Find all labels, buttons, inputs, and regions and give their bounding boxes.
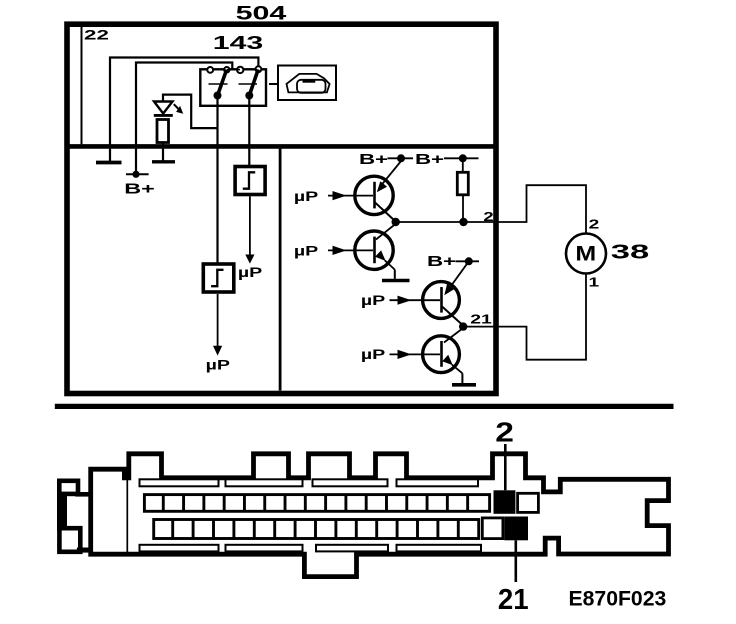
connector bracket ledge bottom — [77, 548, 92, 553]
svg-text:38: 38 — [611, 240, 649, 263]
wire: ground feed to switch S2 — [110, 58, 258, 162]
pulse box U2 — [203, 264, 234, 292]
svg-text:B+: B+ — [124, 181, 155, 197]
wire node to motor pin 2 — [396, 185, 586, 234]
svg-text:E870F023: E870F023 — [569, 587, 667, 610]
svg-text:21: 21 — [470, 311, 492, 326]
switch S2 blade — [249, 69, 258, 95]
pin 2 highlighted — [494, 490, 516, 514]
node dot R2 junction — [459, 218, 467, 226]
wire B+ rail 3 — [456, 260, 480, 262]
leader line pin 21 — [514, 540, 517, 582]
svg-text:B+: B+ — [415, 151, 444, 167]
wire B+ rail segment 1 — [388, 157, 414, 159]
svg-text:µP: µP — [294, 243, 318, 259]
motor M 38 — [566, 234, 606, 274]
switch S2 stub to box edge — [261, 69, 266, 71]
svg-text:2: 2 — [495, 416, 514, 448]
wire node to motor pin 1 — [463, 273, 586, 359]
switch S1 blade — [218, 70, 227, 96]
svg-text:21: 21 — [498, 584, 529, 615]
transistor Q2 — [355, 225, 395, 270]
connector bracket ledge top — [75, 492, 92, 497]
pulse symbol U1 — [243, 172, 255, 188]
wire: S1 output down to pulse box U2 — [216, 96, 218, 263]
svg-text:2: 2 — [589, 217, 600, 231]
svg-text:µP: µP — [238, 265, 262, 281]
switch box 143 — [200, 69, 266, 106]
svg-text:143: 143 — [213, 33, 264, 54]
wire: U2 to uP arrow — [217, 294, 219, 346]
arrowhead U1 output — [245, 255, 254, 264]
resistor R2 — [457, 172, 468, 195]
uP input line Q2 — [328, 249, 373, 251]
pin left of pin 21 — [482, 518, 503, 539]
node dot B+ R2 — [459, 154, 467, 162]
wire: S2 output down to pulse box U1 — [248, 96, 250, 166]
leader line pin 2 — [504, 444, 507, 490]
pin 21 highlighted — [504, 517, 528, 541]
pulse symbol U2 — [211, 270, 223, 286]
svg-text:µP: µP — [361, 293, 385, 309]
wire: LED anode to switch S1 output — [163, 95, 218, 129]
bottom shelf strip 2 — [226, 545, 303, 552]
wire R2 to node 2 — [462, 195, 464, 222]
switch S1 moving dot — [214, 92, 222, 100]
connector left bracket bottom arm — [59, 528, 80, 552]
arrowhead uP Q4 — [398, 350, 412, 359]
bottom shelf strip 4 — [397, 545, 482, 552]
internal divider horizontal — [67, 144, 496, 149]
switch S1 pivot circle — [224, 67, 229, 72]
svg-text:M: M — [575, 241, 596, 265]
transistor Q3 — [423, 261, 469, 324]
transistor Q1 — [355, 161, 402, 221]
pin right of pin 2 — [518, 493, 539, 512]
wire Q2 emitter to ground — [394, 270, 396, 279]
top shelf strip 3 — [313, 479, 388, 486]
switch S2 pivot circle — [256, 66, 262, 72]
wire B+ rail segment 2 — [444, 157, 479, 159]
switch S1 contact a — [207, 67, 213, 73]
svg-text:µP: µP — [294, 188, 318, 204]
pin row 1 — [144, 495, 489, 512]
bottom shelf strip 3 — [316, 545, 388, 552]
connector housing outline — [91, 454, 669, 577]
svg-text:µP: µP — [361, 347, 385, 363]
ground G3 — [382, 279, 410, 283]
separator line — [55, 404, 674, 409]
switch S1 tick — [209, 83, 228, 85]
node dot B+ Q3 — [465, 257, 473, 265]
svg-text:2: 2 — [483, 209, 493, 224]
wire: U1 to uP arrow — [249, 196, 251, 255]
node B+ supply dot — [132, 171, 139, 178]
uP input line Q3 — [390, 299, 441, 301]
arrowhead uP Q2 — [333, 246, 347, 255]
wire B+ to R2 — [462, 158, 464, 172]
arrowhead U2 output — [213, 346, 222, 356]
wire: switch box to car icon — [269, 83, 278, 85]
node B+ cross line — [126, 173, 149, 175]
wire: B+ feed to switch S1 — [136, 63, 232, 175]
transistor Q4 — [423, 329, 463, 374]
svg-text:22: 22 — [84, 27, 109, 43]
bottom shelf strip 1 — [140, 545, 219, 552]
svg-text:B+: B+ — [427, 253, 456, 269]
node dot B+ Q1 — [397, 154, 405, 162]
svg-text:504: 504 — [236, 3, 288, 24]
uP input line Q4 — [390, 353, 441, 355]
svg-text:B+: B+ — [359, 151, 388, 167]
pulse box U1 — [235, 167, 265, 195]
node dot 2 junction — [392, 218, 400, 226]
arrowhead uP Q3 — [398, 296, 412, 305]
svg-text:µP: µP — [206, 357, 230, 373]
uP input line Q1 — [328, 195, 373, 197]
svg-text:1: 1 — [588, 275, 599, 289]
ground G2 — [152, 160, 175, 163]
internal divider vertical — [279, 146, 282, 390]
car icon box — [278, 66, 336, 101]
wire: R1 to ground — [162, 143, 164, 161]
switch S2 tick — [239, 83, 258, 85]
control unit box 504 — [67, 24, 496, 393]
pin row 2 — [154, 520, 479, 539]
car icon — [287, 74, 330, 93]
switch S2 moving dot — [245, 92, 253, 100]
node dot 21 junction — [459, 322, 467, 330]
switch S1 contact b — [237, 67, 243, 73]
wire Q4 emitter to ground — [461, 373, 463, 383]
top shelf strip 2 — [226, 479, 303, 486]
ground G4 — [452, 383, 476, 387]
pin 22 cell line — [81, 27, 83, 144]
switch S1 pivot link — [227, 69, 240, 71]
connector block separator line — [126, 477, 128, 552]
arrowhead uP Q1 — [333, 191, 347, 200]
LED D1 — [154, 102, 183, 116]
top shelf strip 4 — [397, 479, 479, 486]
top shelf strip 1 — [140, 479, 219, 486]
resistor R1 — [157, 120, 169, 143]
connector left bracket middle bar — [57, 494, 67, 531]
ground G1 — [96, 161, 122, 165]
connector left bracket top arm — [59, 481, 78, 494]
